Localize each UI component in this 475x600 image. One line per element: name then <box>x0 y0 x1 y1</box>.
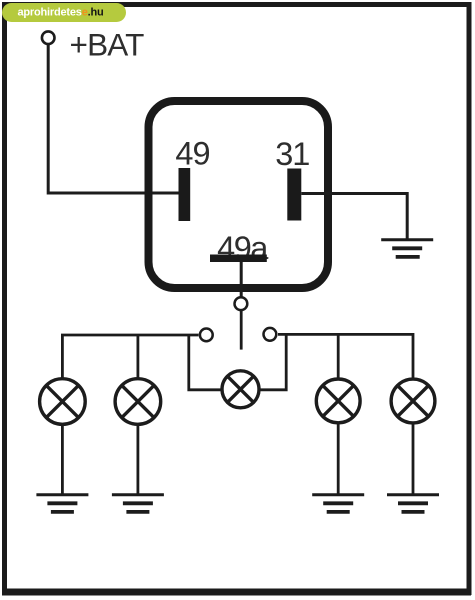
wire from pin 49a to switch pole <box>240 262 243 297</box>
ground (lamp L4) <box>312 495 364 512</box>
wire right bus to lamp L5 <box>278 334 413 380</box>
wire lamp L3 right feed <box>253 334 286 389</box>
ground (lamp L1) <box>36 495 88 512</box>
pin 49 <box>179 168 191 221</box>
wire lamp L3 left feed <box>189 335 228 390</box>
lamp L5 <box>391 379 435 423</box>
svg-text:aprohirdetese.hu: aprohirdetese.hu <box>18 7 104 19</box>
wire lamp L5 to ground <box>412 423 415 495</box>
lamp L4 <box>316 379 360 423</box>
svg-text:49: 49 <box>175 136 209 172</box>
wire from +BAT terminal to pin 49 <box>48 45 178 194</box>
lamp L3 <box>222 371 259 408</box>
ground (lamp L5) <box>387 495 439 512</box>
ground (lamp L2) <box>112 495 164 512</box>
switch contact left <box>200 329 213 342</box>
node switch pole <box>235 297 248 310</box>
lamp L2 <box>115 379 161 425</box>
wire left bus to lamp L1 <box>62 335 198 380</box>
switch arm (open) <box>240 311 243 350</box>
svg-text:+BAT: +BAT <box>70 27 145 63</box>
ground (pin 31) <box>381 240 433 257</box>
wire lamp L4 to ground <box>337 423 340 495</box>
wire from pin 31 to ground <box>301 194 407 241</box>
lamp L1 <box>40 379 86 425</box>
wire lamp L2 to ground <box>136 423 139 495</box>
node +BAT terminal <box>42 31 55 44</box>
watermark pill <box>2 3 126 22</box>
pin 31 <box>287 169 301 221</box>
svg-text:31: 31 <box>275 136 309 172</box>
wire lamp L2 feed <box>136 335 139 380</box>
switch contact right <box>264 328 277 341</box>
pin 49a <box>210 255 267 263</box>
relay body U1 <box>149 101 329 288</box>
wire lamp L1 to ground <box>61 423 64 495</box>
wire lamp L4 feed <box>337 334 340 380</box>
